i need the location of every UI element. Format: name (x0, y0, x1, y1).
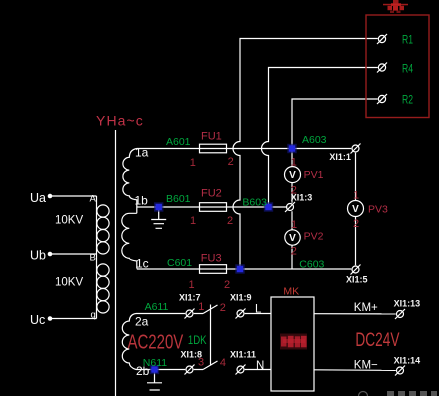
svg-text:3: 3 (198, 357, 204, 369)
svg-text:1: 1 (353, 190, 359, 202)
wire KM- (314, 369, 396, 372)
svg-text:1c: 1c (136, 257, 149, 271)
MK module inner red text (280, 334, 307, 350)
svg-text:1b: 1b (135, 194, 149, 208)
wire vertical R4 feeder with hop over A line (262, 68, 378, 208)
watermark bottom right (359, 391, 438, 396)
wire phase B line 1b lead (137, 206, 287, 208)
transformer primary winding 2 (B-q) (97, 264, 109, 313)
svg-text:1: 1 (189, 279, 195, 291)
svg-text:1a: 1a (135, 146, 149, 160)
svg-text:XI1:1: XI1:1 (329, 152, 351, 162)
svg-text:YHa~c: YHa~c (96, 113, 144, 129)
svg-text:2: 2 (228, 156, 234, 168)
wire N line (2b to MK) (136, 369, 271, 371)
label R1 (402, 34, 413, 46)
svg-text:B: B (90, 253, 96, 264)
svg-text:XI1:5: XI1:5 (346, 274, 368, 284)
terminal XI1:13 (397, 311, 404, 318)
label AC220V (128, 330, 184, 353)
svg-text:1: 1 (291, 219, 297, 231)
terminal XI1:7 (186, 310, 193, 317)
transformer secondary winding 2 (2a-2b) (122, 314, 136, 370)
wire Ub lead (52, 253, 97, 255)
svg-text:A601: A601 (166, 136, 191, 148)
wire Ua lead (52, 195, 97, 197)
node Ua dot (48, 194, 53, 199)
wire PV3 branch (355, 153, 357, 266)
terminal R4 (378, 64, 385, 71)
svg-text:FU3: FU3 (201, 253, 222, 265)
svg-text:2: 2 (224, 279, 230, 291)
svg-text:PV2: PV2 (304, 230, 324, 242)
svg-text:A611: A611 (145, 301, 169, 313)
voltmeter PV2 circle (285, 230, 300, 245)
svg-text:1: 1 (291, 157, 297, 169)
junction A603 (blue) (287, 144, 296, 153)
label R4 (402, 63, 413, 75)
junction C603 at FU3 output (blue) (235, 264, 244, 273)
junction B601 (blue) (154, 202, 163, 211)
svg-text:V: V (289, 233, 296, 244)
svg-text:N: N (256, 360, 264, 372)
junction 2b N611 (blue) (150, 365, 159, 374)
label DC24V (355, 329, 399, 351)
svg-text:FU2: FU2 (201, 188, 222, 200)
terminal R2 (378, 95, 385, 102)
svg-text:XI1:3: XI1:3 (291, 193, 313, 203)
svg-text:Ub: Ub (30, 249, 46, 263)
terminal XI1:8 (186, 366, 193, 373)
wire phase A line (137, 148, 351, 150)
wire PV2 branch B to C (291, 211, 293, 269)
label R2 (402, 95, 413, 107)
svg-text:A: A (90, 194, 97, 205)
node Ub dot (48, 252, 53, 257)
node Uc dot (48, 316, 53, 321)
svg-text:Ua: Ua (30, 191, 46, 205)
svg-text:N611: N611 (143, 357, 167, 369)
svg-text:4: 4 (220, 357, 226, 369)
svg-text:1DK: 1DK (188, 334, 207, 347)
svg-text:KM−: KM− (354, 359, 378, 371)
svg-text:1: 1 (190, 215, 196, 227)
svg-text:FU1: FU1 (201, 130, 222, 142)
ground at B601 node (151, 207, 166, 228)
svg-text:1: 1 (198, 301, 204, 313)
svg-text:C603: C603 (299, 258, 324, 270)
svg-text:PV3: PV3 (368, 203, 388, 215)
red top symbol (383, 0, 408, 13)
svg-text:XI1:9: XI1:9 (230, 293, 252, 303)
svg-text:2a: 2a (135, 315, 149, 329)
svg-text:2: 2 (220, 302, 226, 314)
terminal XI1:11 (237, 366, 244, 373)
wire Uc lead (52, 318, 97, 320)
wire PV1 branch A to B (291, 149, 293, 203)
resistor box (red test block) (366, 15, 429, 118)
wire phase C line 1c lead (137, 268, 351, 270)
fuse FU3 body (200, 265, 227, 274)
transformer primary spine (96, 196, 98, 319)
transformer secondary winding a (1a-1b) (123, 149, 137, 214)
fuse FU1 body (200, 144, 227, 153)
svg-text:10KV: 10KV (55, 215, 83, 227)
terminal XI1:3 circle (287, 204, 294, 211)
ground at 2b node (147, 370, 162, 391)
svg-text:2: 2 (291, 245, 297, 257)
svg-text:V: V (289, 170, 296, 181)
label 1DK (188, 334, 207, 347)
svg-text:2: 2 (227, 215, 233, 227)
voltmeter PV3 circle (348, 201, 364, 217)
transformer core line (115, 130, 117, 396)
svg-text:KM+: KM+ (354, 302, 378, 314)
switch 1DK link (210, 305, 212, 366)
voltmeter PV1 circle (285, 167, 301, 183)
junction B603 (blue) (264, 202, 273, 211)
svg-text:XI1:14: XI1:14 (394, 356, 421, 366)
svg-text:10KV: 10KV (55, 277, 83, 289)
wire KM+ (314, 313, 396, 315)
wire L line (2a to MK) (136, 313, 271, 315)
svg-text:R4: R4 (402, 63, 413, 75)
transformer primary winding 1 (A-B) (97, 205, 109, 254)
svg-text:C601: C601 (167, 257, 192, 269)
svg-text:Uc: Uc (30, 313, 45, 327)
terminal R1 (378, 35, 385, 42)
fuse FU2 body (200, 203, 227, 212)
svg-text:XI1:11: XI1:11 (230, 350, 256, 360)
svg-text:R1: R1 (402, 34, 413, 46)
svg-text:XI1:13: XI1:13 (394, 299, 421, 309)
terminal XI1:1 circle (352, 145, 359, 152)
svg-text:AC220V: AC220V (128, 330, 184, 353)
svg-text:A603: A603 (302, 134, 327, 146)
svg-text:1: 1 (190, 157, 196, 169)
svg-text:q: q (91, 310, 96, 321)
svg-text:2: 2 (353, 218, 359, 230)
wire vertical R2 feeder (292, 99, 378, 149)
svg-text:DC24V: DC24V (355, 329, 399, 351)
transformer secondary winding b (1b-1c) (122, 213, 137, 268)
svg-text:V: V (352, 204, 359, 215)
switch 1DK pole 2 blade (203, 361, 218, 370)
MK module box (271, 297, 314, 391)
svg-text:MK: MK (283, 286, 299, 298)
svg-text:B601: B601 (166, 193, 191, 205)
svg-text:B603: B603 (242, 197, 267, 209)
terminal XI1:14 (397, 367, 404, 374)
wire vertical R1 feeder with hops over A and B lines (233, 39, 378, 270)
terminal XI1:5 circle (352, 266, 359, 273)
svg-text:L: L (255, 304, 262, 316)
terminal XI1:9 (237, 310, 244, 317)
svg-text:R2: R2 (402, 95, 413, 107)
svg-text:PV1: PV1 (304, 169, 324, 181)
switch 1DK pole 1 blade (203, 305, 218, 314)
